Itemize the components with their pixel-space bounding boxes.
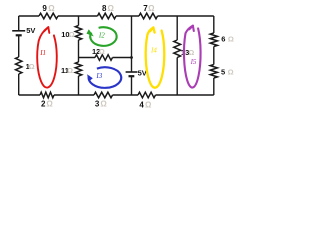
svg-text:Ω: Ω <box>148 4 155 13</box>
svg-text:8: 8 <box>102 4 107 13</box>
resistor R 6ohm right <box>210 33 217 47</box>
junction node middle <box>130 56 133 59</box>
mesh current arrow I5 magenta <box>184 26 201 88</box>
label 1 ohm <box>26 62 35 71</box>
wire bottom right section <box>156 94 214 96</box>
wire top right section <box>158 15 214 17</box>
wire right edge lower <box>213 78 215 95</box>
svg-text:Ω: Ω <box>188 48 194 57</box>
resistor R 8ohm top-middle <box>98 13 117 19</box>
wire right edge middle <box>213 47 215 65</box>
svg-text:Ω: Ω <box>100 100 107 109</box>
svg-text:Ω: Ω <box>228 35 234 44</box>
wire bottom between 3-ohm and 4-ohm <box>113 94 139 96</box>
wire branch B lower <box>78 76 80 95</box>
svg-text:6: 6 <box>221 35 225 44</box>
battery V1 5V left <box>12 31 25 36</box>
wire left edge upper <box>18 16 20 30</box>
resistor R 13ohm <box>174 40 181 58</box>
svg-text:Ω: Ω <box>69 30 75 39</box>
label 8 ohm <box>102 4 115 13</box>
svg-text:Ω: Ω <box>46 99 53 108</box>
battery V2 5V middle <box>126 72 138 76</box>
resistor R 10ohm <box>75 26 81 41</box>
svg-text:Ω: Ω <box>228 68 234 77</box>
resistor R 12ohm middle <box>95 55 113 61</box>
label 6 ohm <box>221 35 234 44</box>
wire left edge lower <box>18 74 20 95</box>
svg-text:Ω: Ω <box>108 4 115 13</box>
svg-text:4: 4 <box>139 100 144 109</box>
svg-text:Ω: Ω <box>145 100 152 109</box>
wire branch D lower <box>176 58 178 96</box>
label 11 ohm <box>61 66 73 75</box>
wire middle left stub <box>79 57 96 59</box>
label 7 ohm <box>143 4 155 13</box>
mesh current arrow I4 yellow <box>146 28 165 88</box>
label 5 ohm <box>221 68 234 77</box>
wire branch C upper <box>131 16 133 72</box>
resistor R 7ohm top-right <box>139 13 158 19</box>
wire middle right stub <box>113 57 132 59</box>
svg-text:Ω: Ω <box>48 4 55 13</box>
label 9 ohm <box>42 4 55 13</box>
mesh current arrow I1 red <box>37 27 57 87</box>
wire bottom between 2-ohm and 3-ohm <box>54 94 94 96</box>
svg-text:Ω: Ω <box>99 47 105 56</box>
mesh current arrow I2 green <box>87 27 117 46</box>
svg-text:I4: I4 <box>150 47 157 55</box>
svg-text:5: 5 <box>221 68 225 77</box>
wire top from left corner to 9-ohm <box>19 15 39 17</box>
label 4 ohm <box>139 100 152 109</box>
mesh current arrow I3 blue <box>87 67 121 88</box>
wire branch B upper (node to 10-ohm) <box>78 16 80 26</box>
resistor R 1ohm left <box>16 57 22 74</box>
label 13 ohm <box>181 48 194 57</box>
svg-text:9: 9 <box>42 4 47 13</box>
wire left edge middle <box>18 35 20 57</box>
svg-text:Ω: Ω <box>29 62 35 71</box>
svg-text:I1: I1 <box>39 49 46 57</box>
wire branch C lower <box>131 76 133 95</box>
resistor R 11ohm <box>75 62 81 76</box>
wire top between 9-ohm and 8-ohm <box>58 15 98 17</box>
svg-text:2: 2 <box>41 99 46 108</box>
svg-text:5V: 5V <box>26 26 35 35</box>
label 2 ohm <box>41 99 53 108</box>
label 10 ohm <box>61 30 74 39</box>
resistor R 2ohm bottom-left <box>40 92 54 98</box>
resistor R 3ohm bottom-middle <box>94 92 113 98</box>
wire branch B middle <box>78 40 80 62</box>
svg-text:I3: I3 <box>95 72 102 80</box>
wire branch D upper (to 13-ohm) <box>176 16 178 40</box>
svg-text:5V: 5V <box>138 68 147 77</box>
svg-text:I5: I5 <box>190 58 197 66</box>
label 3 ohm <box>95 100 108 109</box>
resistor R 5ohm right <box>210 65 217 79</box>
wire top between 8-ohm and 7-ohm <box>116 15 139 17</box>
wire right edge upper <box>213 16 215 33</box>
resistor R 9ohm top-left <box>39 13 58 19</box>
resistor R 4ohm bottom-right <box>138 92 156 98</box>
svg-text:3: 3 <box>95 100 100 109</box>
wire bottom left <box>19 94 40 96</box>
label 12 ohm <box>92 47 105 56</box>
svg-text:I2: I2 <box>98 31 105 39</box>
svg-text:Ω: Ω <box>67 66 73 75</box>
